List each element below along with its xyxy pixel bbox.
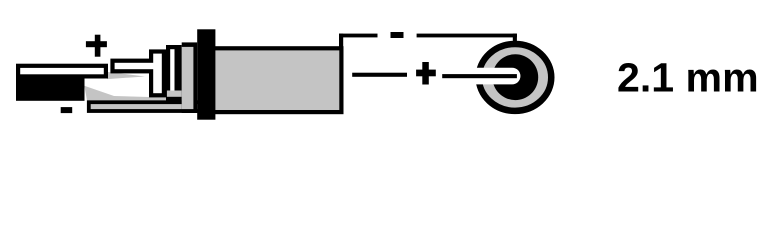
- collar ring (black band): [197, 29, 215, 119]
- wire: top path segment B: [417, 34, 517, 38]
- wire: top path from barrel corner: [339, 34, 378, 47]
- front view center pin hole (black disc): [492, 54, 538, 100]
- white channel for center wire: [470, 68, 520, 85]
- svg-text:2.1 mm: 2.1 mm: [617, 54, 759, 100]
- bottom sleeve tube bar (gray, outlined): [87, 100, 200, 113]
- wire: center path segment B into pin: [442, 74, 517, 78]
- sleeve terminal bar (black): [16, 79, 85, 101]
- pin bracket tall (white, outlined): [166, 45, 182, 104]
- barrel body (gray, outlined): [212, 46, 344, 114]
- tip terminal bar (white, outlined): [16, 64, 108, 79]
- front view outer ring (gray with black ring): [479, 44, 552, 111]
- pin bracket inner (white, outlined): [149, 49, 166, 97]
- insulator wedge lower: [84, 86, 167, 101]
- minus label (-) left: [61, 107, 72, 113]
- barrel back piece (gray, outlined): [182, 42, 198, 113]
- plus label (+) left: [86, 35, 107, 57]
- insulator wedge upper: [107, 72, 145, 79]
- plus label (+) center: [416, 62, 436, 85]
- wire: center path segment A: [352, 73, 407, 77]
- pin contact bar (white, outlined): [110, 59, 155, 74]
- wire: top path drop to ring: [513, 34, 517, 47]
- minus label (-) top: [391, 32, 404, 38]
